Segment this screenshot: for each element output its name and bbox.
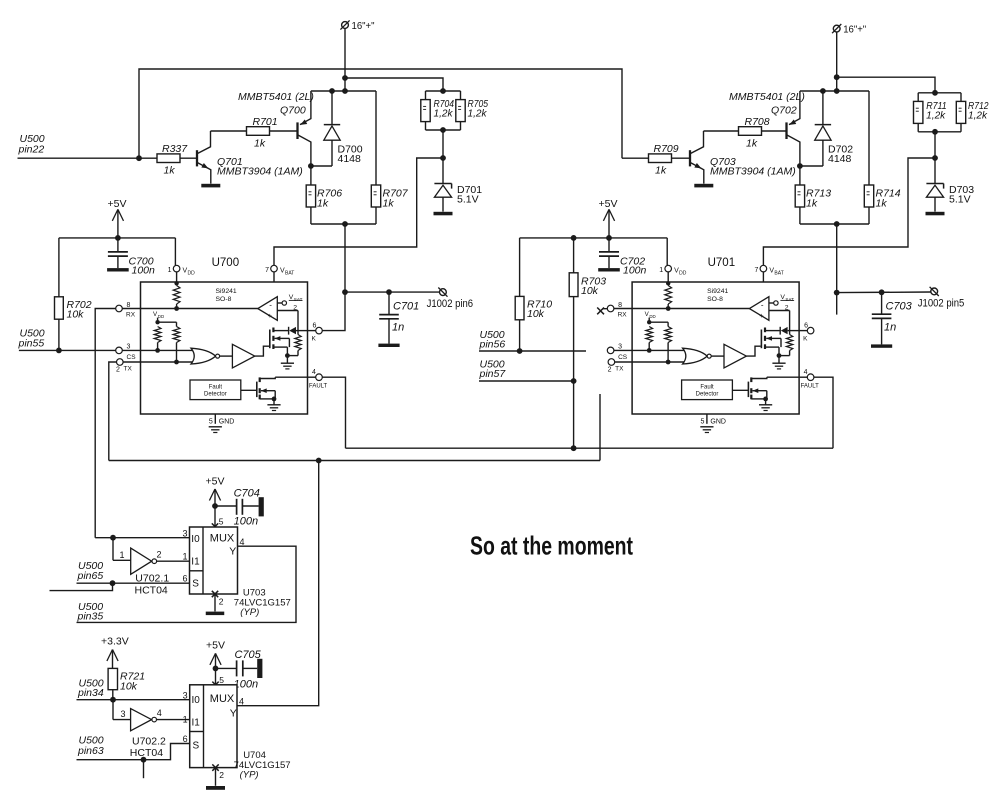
wire rail to R710 bbox=[519, 238, 521, 297]
wire K line U700 bbox=[273, 330, 288, 332]
pin 3 label U704 bbox=[183, 690, 188, 700]
power +3.3V bbox=[101, 636, 129, 669]
wire R713/R714 bottom rail bbox=[800, 207, 869, 224]
power +5V for U703 bbox=[206, 476, 225, 527]
wire fault detector to MOSFET U701 bbox=[732, 389, 748, 391]
svg-text:CS: CS bbox=[127, 354, 137, 361]
resistor R712 bbox=[956, 93, 965, 124]
junction R703-FAULT bus bbox=[571, 445, 577, 451]
svg-text:CS: CS bbox=[618, 354, 628, 361]
resistor R710 10k bbox=[515, 296, 552, 320]
junction VBAT left bbox=[0, 0, 1, 1]
svg-text:MMBT5401 (2L): MMBT5401 (2L) bbox=[729, 91, 805, 103]
resistor R704 bbox=[421, 91, 430, 122]
ground at Q701 emitter bbox=[201, 184, 220, 188]
diode on K line U700 bbox=[289, 327, 308, 335]
svg-text:1k: 1k bbox=[655, 164, 667, 176]
internal VDD resistor U700 bbox=[173, 286, 180, 309]
junction pair top bbox=[440, 88, 446, 94]
wire buffer to MOSFET gate U701 bbox=[746, 346, 760, 356]
svg-text:SAT: SAT bbox=[294, 297, 303, 302]
pin 3 CS U700 bbox=[116, 344, 141, 362]
pin 5 GND U700 bbox=[209, 414, 235, 433]
wire R704/R705 bottom rail bbox=[426, 122, 461, 130]
svg-text:I0: I0 bbox=[191, 534, 200, 545]
ground U704 pin2 bbox=[206, 786, 225, 790]
svg-text:R337: R337 bbox=[162, 143, 188, 155]
svg-text:1: 1 bbox=[120, 550, 125, 560]
wire Q701 collector to R701 bbox=[211, 130, 247, 132]
op-amp IC U701 Si9241 box bbox=[632, 282, 799, 414]
svg-text:1k: 1k bbox=[383, 198, 395, 210]
junction Q702 collector bbox=[797, 163, 803, 169]
svg-text:So at the moment: So at the moment bbox=[470, 531, 633, 561]
junction +5V rail left bbox=[115, 235, 121, 241]
junction source node U700 bbox=[285, 353, 290, 358]
svg-text:+5V: +5V bbox=[108, 198, 127, 210]
svg-text:pin57: pin57 bbox=[479, 368, 507, 380]
svg-text:RX: RX bbox=[126, 311, 136, 318]
svg-text:BAT: BAT bbox=[285, 271, 294, 277]
wire RX to I0 U703 bbox=[95, 537, 189, 539]
svg-text:pin35: pin35 bbox=[77, 611, 104, 623]
svg-text:pin63: pin63 bbox=[77, 745, 104, 757]
svg-text:4148: 4148 bbox=[338, 153, 362, 165]
svg-text:I1: I1 bbox=[191, 557, 200, 568]
svg-text:5: 5 bbox=[209, 418, 213, 425]
fault detector block U701 bbox=[682, 380, 733, 400]
svg-text:GND: GND bbox=[710, 418, 726, 425]
label R704 1,2k bbox=[434, 99, 455, 120]
svg-text:GND: GND bbox=[219, 418, 235, 425]
label U704 bbox=[234, 750, 291, 781]
svg-text:I1: I1 bbox=[192, 718, 201, 729]
resistor R702 10k bbox=[55, 297, 92, 321]
pin 1 VDD U701 bbox=[659, 265, 687, 285]
transistor Q700 MMBT5401 bbox=[238, 91, 314, 166]
svg-text:RX: RX bbox=[618, 311, 628, 318]
wire CS line U700 bbox=[141, 349, 197, 351]
svg-text:1k: 1k bbox=[746, 138, 758, 150]
wire TX bus bbox=[109, 460, 600, 462]
pin 8 RX U701 bbox=[607, 302, 632, 318]
svg-text:6: 6 bbox=[313, 323, 317, 330]
svg-text:pin65: pin65 bbox=[77, 570, 104, 582]
wire Y U704 to TX bus bbox=[237, 461, 319, 706]
pin 4 label U704 bbox=[239, 697, 244, 707]
wire R704/R705 top rail bbox=[426, 90, 461, 92]
svg-text:J1002 pin6: J1002 pin6 bbox=[427, 298, 474, 310]
ground at D701 bbox=[434, 212, 453, 216]
svg-text:100n: 100n bbox=[234, 516, 258, 528]
wire U500 pin63 to S bbox=[77, 744, 190, 760]
resistor R709 bbox=[649, 143, 679, 176]
junction C703 branch bbox=[834, 290, 840, 296]
pin 8 RX U700 bbox=[116, 302, 141, 318]
svg-text:+5V: +5V bbox=[206, 640, 225, 652]
wire U500 pin56 bbox=[479, 350, 586, 352]
zener diode D703 5.1V bbox=[926, 158, 974, 212]
transistor Q701 MMBT3904 bbox=[197, 131, 303, 184]
label R712 1,2k bbox=[968, 101, 989, 122]
svg-text:1: 1 bbox=[659, 267, 663, 274]
junction +5V C705 node bbox=[213, 666, 219, 672]
terminal J1002 pin5 bbox=[918, 287, 965, 310]
wire pair to zener node bbox=[442, 130, 444, 158]
node VBAT left bbox=[440, 155, 446, 161]
fault detector block U700 bbox=[190, 380, 241, 400]
svg-text:1: 1 bbox=[182, 551, 187, 561]
svg-text:pin55: pin55 bbox=[18, 338, 45, 350]
svg-text:MUX: MUX bbox=[210, 532, 235, 544]
svg-text:pin34: pin34 bbox=[77, 687, 104, 699]
pin 6 K U700 bbox=[308, 323, 323, 343]
wire D702 to collector node bbox=[800, 165, 823, 167]
svg-text:MMBT5401 (2L): MMBT5401 (2L) bbox=[238, 91, 314, 103]
pullup resistor to CS U701 bbox=[646, 327, 653, 353]
wire R337 to Q701 base bbox=[180, 157, 197, 159]
capacitor C703 1n bbox=[871, 292, 913, 348]
svg-text:3: 3 bbox=[121, 709, 126, 719]
svg-text:DD: DD bbox=[679, 271, 687, 277]
MOSFET lower U701 bbox=[748, 377, 766, 399]
ground internal upper U701 bbox=[772, 356, 785, 369]
NOR gate U701 bbox=[683, 348, 712, 364]
pin 6 K U701 bbox=[799, 323, 814, 343]
resistor R703 10k bbox=[569, 273, 606, 297]
pin 2 TX U700 bbox=[116, 359, 141, 374]
resistor R706 bbox=[306, 166, 342, 210]
comparator U700 bbox=[258, 297, 278, 321]
svg-text:3: 3 bbox=[183, 690, 188, 700]
svg-text:100n: 100n bbox=[132, 265, 156, 277]
label Si9241 SO-8 bbox=[216, 288, 237, 303]
power +5V right bbox=[599, 198, 618, 238]
pin 4 FAULT U701 bbox=[799, 369, 819, 390]
wire R711/R712 bottom rail bbox=[918, 123, 961, 131]
junction rail-D702 bbox=[820, 88, 826, 94]
svg-text:+5V: +5V bbox=[206, 476, 225, 488]
junction pair bottom bbox=[932, 129, 938, 135]
multiplexer U704 box bbox=[190, 685, 237, 768]
svg-text:C705: C705 bbox=[235, 649, 262, 661]
pullup resistor to CS U700 bbox=[154, 327, 161, 353]
wire RX line U700 bbox=[141, 308, 258, 310]
internal VDD resistor U701 bbox=[665, 286, 672, 309]
wire TX line U700 bbox=[141, 361, 197, 363]
wire C703 branch to J1002 pin5 bbox=[837, 291, 931, 294]
svg-text:6: 6 bbox=[182, 574, 187, 584]
net label U500 pin55 bbox=[18, 328, 45, 350]
pin 6 label U703 bbox=[182, 574, 187, 584]
pin 4 label U703 bbox=[240, 537, 245, 547]
pin 2 VSAT U701 bbox=[769, 294, 794, 312]
svg-text:-: - bbox=[269, 301, 272, 310]
svg-text:1k: 1k bbox=[317, 198, 329, 210]
junction rail-D700 bbox=[329, 88, 335, 94]
pin 6 label U704 bbox=[183, 734, 188, 744]
diode D702 4148 bbox=[815, 91, 854, 166]
terminal J1002 pin6 bbox=[427, 288, 474, 311]
wire U500 pin57 bbox=[479, 380, 574, 382]
junction C703 tap bbox=[879, 289, 885, 295]
svg-text:3: 3 bbox=[127, 344, 131, 351]
svg-text:1n: 1n bbox=[392, 322, 404, 334]
svg-text:Fault: Fault bbox=[700, 384, 714, 390]
svg-text:10k: 10k bbox=[527, 308, 545, 320]
junction 16V branch bbox=[834, 74, 840, 80]
inverter U702.1 bbox=[113, 538, 190, 597]
pin 3 label U703 bbox=[182, 529, 187, 539]
pin 2 X mark U704 bbox=[212, 764, 224, 785]
net label U500 pin35 bbox=[77, 601, 104, 623]
junction source node U701 bbox=[777, 353, 782, 358]
svg-text:5: 5 bbox=[219, 675, 224, 685]
svg-text:U700: U700 bbox=[212, 257, 240, 269]
wire 16V to R711/R712 bbox=[837, 77, 935, 93]
annotation So at the moment bbox=[470, 531, 633, 561]
svg-text:DD: DD bbox=[158, 314, 164, 319]
wire U700 FAULT to bus bbox=[322, 377, 345, 448]
svg-text:+5V: +5V bbox=[599, 198, 618, 210]
capacitor C702 100n bbox=[598, 238, 646, 277]
svg-text:C704: C704 bbox=[234, 487, 260, 499]
svg-text:3: 3 bbox=[618, 344, 622, 351]
svg-text:5: 5 bbox=[700, 418, 704, 425]
svg-text:(YP): (YP) bbox=[240, 770, 259, 781]
wire U500 pin22 input to R337 bbox=[18, 157, 158, 159]
junction I0-inverter tap bbox=[110, 535, 116, 541]
svg-text:I0: I0 bbox=[192, 695, 201, 706]
transistor Q702 MMBT5401 bbox=[729, 91, 805, 166]
wire VBAT to pin7 right bbox=[763, 158, 935, 265]
wire comparator feedback U700 bbox=[277, 311, 298, 331]
ground internal lower U701 bbox=[759, 399, 772, 411]
pullup resistor to TX U700 bbox=[173, 322, 180, 364]
junction 16V branch bbox=[342, 75, 348, 81]
junction pair top bbox=[932, 90, 938, 96]
svg-text:4: 4 bbox=[804, 369, 808, 376]
resistor R705 bbox=[456, 91, 465, 122]
svg-text:1k: 1k bbox=[806, 198, 818, 210]
svg-text:Y: Y bbox=[230, 708, 237, 720]
svg-text:1,2k: 1,2k bbox=[434, 109, 454, 120]
wire U500 pin55 to CS bbox=[19, 349, 116, 351]
svg-text:FAULT: FAULT bbox=[309, 383, 328, 389]
power +5V for U704 bbox=[206, 640, 225, 685]
svg-text:pin56: pin56 bbox=[479, 339, 506, 351]
net label U500 pin65 bbox=[77, 560, 104, 582]
wire buffer to MOSFET gate U700 bbox=[255, 346, 269, 356]
power +5V left bbox=[108, 198, 127, 238]
internal VDD tap U700 bbox=[153, 311, 177, 324]
svg-text:TX: TX bbox=[124, 366, 133, 373]
svg-text:SO-8: SO-8 bbox=[216, 296, 232, 303]
svg-text:16"+": 16"+" bbox=[843, 25, 866, 36]
buffer gate U700 bbox=[232, 344, 254, 368]
wire R713/R714 rail to C703 node bbox=[836, 224, 838, 315]
svg-text:BAT: BAT bbox=[774, 271, 783, 277]
wire U701 FAULT to bus bbox=[814, 377, 833, 448]
svg-text:Detector: Detector bbox=[696, 392, 719, 398]
svg-text:8: 8 bbox=[127, 302, 131, 309]
svg-text:U701: U701 bbox=[708, 257, 736, 269]
svg-text:10k: 10k bbox=[120, 681, 138, 693]
net label U500 pin22 bbox=[18, 133, 45, 155]
pullup resistor to TX U701 bbox=[665, 322, 672, 364]
node VBAT right bbox=[932, 155, 938, 161]
wire RX line U701 bbox=[632, 308, 749, 310]
wire NOR to buffer U700 bbox=[220, 355, 233, 357]
junction TX bus - U704 Y bbox=[316, 458, 322, 464]
label U700 bbox=[212, 257, 240, 269]
svg-text:1k: 1k bbox=[164, 164, 176, 176]
svg-text:10k: 10k bbox=[67, 309, 85, 321]
wire Q702 emitter rail bbox=[800, 90, 869, 92]
label R705 1,2k bbox=[468, 99, 489, 120]
junction pin65 bbox=[110, 580, 116, 586]
svg-text:pin22: pin22 bbox=[18, 143, 45, 155]
wire +5V rail right bbox=[520, 237, 668, 239]
ground at Q703 emitter bbox=[694, 184, 713, 188]
resistor R708 bbox=[739, 116, 770, 150]
svg-text:1k: 1k bbox=[876, 198, 888, 210]
junction pin34-R721 bbox=[110, 697, 116, 703]
svg-text:K: K bbox=[803, 336, 808, 343]
pin 3 CS U701 bbox=[607, 344, 632, 362]
resistor R337 bbox=[157, 143, 188, 176]
pin 1 VDD U700 bbox=[168, 265, 196, 285]
svg-text:K: K bbox=[312, 336, 317, 343]
wire TX bus right stub bbox=[599, 394, 601, 461]
svg-text:7: 7 bbox=[265, 267, 269, 274]
wire pin63 stub down bbox=[143, 760, 145, 779]
svg-text:+: + bbox=[759, 311, 763, 320]
svg-text:2: 2 bbox=[219, 770, 224, 780]
wire TX line U701 bbox=[632, 361, 688, 363]
NOR gate U700 bbox=[191, 348, 220, 364]
wire 16V to R704/R705 bbox=[345, 78, 443, 91]
MOSFET upper U700 bbox=[270, 328, 290, 356]
svg-text:+3.3V: +3.3V bbox=[101, 636, 129, 648]
wire U500 pin65 to S bbox=[77, 582, 190, 584]
svg-text:DD: DD bbox=[649, 314, 655, 319]
junction R703-pin57 bbox=[571, 378, 577, 384]
wire U500 pin34 to I0 bbox=[77, 699, 190, 701]
svg-text:Q700: Q700 bbox=[280, 105, 306, 117]
svg-text:-: - bbox=[761, 301, 764, 310]
junction on U500 pin22 line bbox=[136, 155, 142, 161]
wire U700 TX out bbox=[109, 362, 117, 461]
pin 7 VBAT U701 bbox=[754, 265, 783, 282]
net label U500 pin56 bbox=[479, 329, 506, 351]
wire FAULT line U700 bbox=[275, 376, 307, 378]
wire FAULT bus bbox=[346, 447, 834, 449]
svg-text:Fault: Fault bbox=[209, 384, 223, 390]
wire R711/R712 top rail bbox=[918, 92, 961, 94]
zener diode D701 5.1V bbox=[434, 158, 482, 212]
comparator U701 bbox=[749, 297, 769, 321]
svg-text:S: S bbox=[192, 579, 199, 590]
wire K line U701 bbox=[765, 330, 780, 332]
multiplexer U703 box bbox=[190, 527, 238, 594]
wire rail to U701 pin1 bbox=[666, 238, 668, 265]
wire comparator feedback U701 bbox=[769, 311, 790, 331]
svg-text:4148: 4148 bbox=[828, 153, 852, 165]
svg-text:1,2k: 1,2k bbox=[968, 110, 988, 121]
wire U700 RX out bbox=[95, 309, 116, 538]
resistor R721 10k bbox=[108, 668, 145, 692]
junction K-C701 branch bbox=[342, 289, 348, 295]
svg-text:4: 4 bbox=[240, 537, 245, 547]
capacitor C705 100n bbox=[216, 649, 263, 690]
pin 2 TX U701 bbox=[608, 359, 633, 374]
junction pin63 stub bbox=[141, 757, 147, 763]
svg-text:(YP): (YP) bbox=[240, 607, 259, 618]
inverter U702.2 bbox=[113, 700, 190, 759]
label U701 bbox=[708, 257, 736, 269]
svg-text:2: 2 bbox=[157, 550, 162, 560]
svg-text:4: 4 bbox=[239, 697, 244, 707]
pin 2 VSAT U700 bbox=[277, 294, 302, 312]
svg-text:10k: 10k bbox=[581, 285, 599, 297]
junction +5V rail right bbox=[606, 235, 612, 241]
pin 2 X mark U703 bbox=[212, 591, 224, 612]
junction R702-pin55 bbox=[56, 348, 62, 354]
wire Y U703 to U500 pin35 bbox=[77, 546, 297, 622]
wire rail to U700 pin1 bbox=[174, 238, 176, 265]
MOSFET upper U701 bbox=[761, 328, 781, 356]
ground internal lower U700 bbox=[267, 399, 280, 411]
pull resistor on K U700 bbox=[287, 331, 301, 356]
wire R706/R707 bottom rail bbox=[311, 207, 376, 224]
svg-text:R701: R701 bbox=[253, 116, 278, 128]
buffer gate U701 bbox=[724, 344, 746, 368]
pin 5 X mark U704 bbox=[212, 675, 224, 688]
junction VDD res - RX line U701 bbox=[666, 306, 671, 311]
net label U500 pin34 bbox=[77, 677, 104, 699]
resistor R707 bbox=[371, 91, 408, 210]
wire U500 pin22 feed to right half bbox=[139, 69, 622, 158]
svg-text:DD: DD bbox=[188, 271, 196, 277]
svg-text:4: 4 bbox=[157, 708, 162, 718]
svg-text:MMBT3904 (1AM): MMBT3904 (1AM) bbox=[217, 165, 303, 177]
svg-text:2: 2 bbox=[219, 597, 224, 607]
capacitor C700 100n bbox=[107, 238, 155, 277]
svg-text:C701: C701 bbox=[393, 301, 419, 313]
junction rail-R703 bbox=[571, 235, 577, 241]
svg-text:S: S bbox=[193, 741, 200, 752]
label Si9241 SO-8 bbox=[707, 288, 728, 303]
svg-text:5.1V: 5.1V bbox=[457, 193, 479, 205]
svg-text:Q702: Q702 bbox=[771, 105, 797, 117]
wire NOR to buffer U701 bbox=[711, 355, 724, 357]
svg-text:R708: R708 bbox=[745, 116, 770, 128]
svg-text:5: 5 bbox=[219, 517, 224, 527]
wire pin65 lower stub bbox=[50, 583, 113, 590]
svg-text:Si9241: Si9241 bbox=[707, 288, 728, 295]
ground at D703 bbox=[926, 212, 945, 216]
wire rail to R703 bbox=[573, 238, 575, 273]
wire R708 to Q702 base bbox=[762, 130, 787, 132]
svg-text:2: 2 bbox=[116, 367, 120, 374]
pin 1 label U703 bbox=[182, 551, 187, 561]
net label U500 pin63 bbox=[77, 735, 104, 757]
wire R701 to Q700 base bbox=[270, 130, 298, 132]
label R711 1,2k bbox=[926, 101, 947, 122]
svg-text:1n: 1n bbox=[884, 322, 896, 334]
wire pair to zener node bbox=[934, 132, 936, 158]
